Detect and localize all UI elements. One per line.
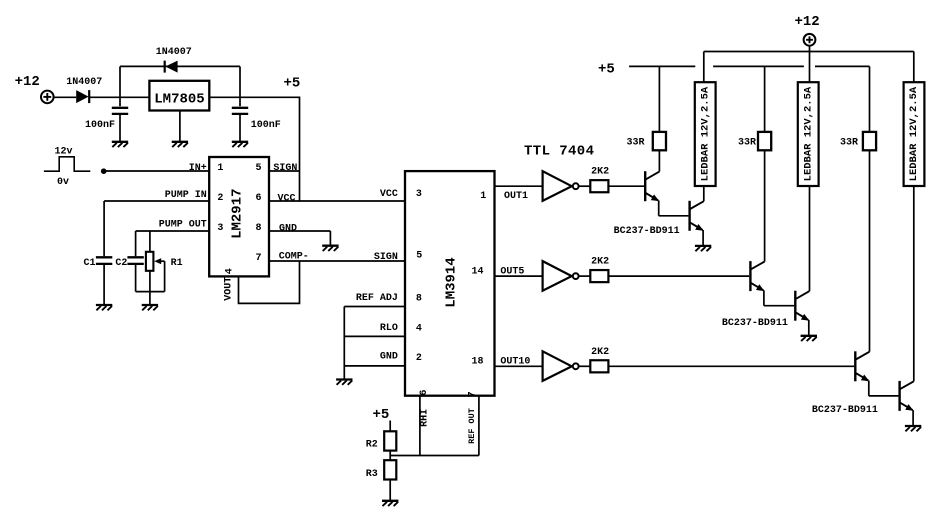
wire 33R to Q3 collector xyxy=(764,150,766,261)
svg-text:4: 4 xyxy=(416,324,422,335)
svg-text:LEDBAR 12V,2.5A: LEDBAR 12V,2.5A xyxy=(802,86,814,181)
wire +12 rail to LEDBAR 1 xyxy=(703,52,705,83)
transistor Q3 BC237 collector xyxy=(751,262,765,270)
svg-text:RHI: RHI xyxy=(420,409,431,427)
transistor Q1 BC237 base bar xyxy=(644,171,646,201)
wire VCC pin6 to LM3914 pin3 xyxy=(269,200,405,202)
diode D1 1N4007 (series input) xyxy=(76,90,89,103)
svg-text:33R: 33R xyxy=(627,138,645,149)
svg-text:4: 4 xyxy=(225,268,236,274)
svg-text:1: 1 xyxy=(480,191,486,202)
svg-text:RLO: RLO xyxy=(380,323,398,334)
svg-text:VCC: VCC xyxy=(380,189,398,200)
inverter U4b triangle xyxy=(543,261,572,291)
resistor R2 box xyxy=(384,431,396,450)
ground under R1 xyxy=(142,305,158,310)
svg-text:R2: R2 xyxy=(366,439,378,450)
svg-text:6: 6 xyxy=(256,193,262,204)
wire +5 rail to 33R 3 xyxy=(869,66,871,131)
resistor 2K2 row 2 box xyxy=(590,270,608,282)
svg-text:GND: GND xyxy=(279,224,297,235)
svg-text:2: 2 xyxy=(416,353,422,364)
resistor 33R 1 box xyxy=(653,132,666,150)
inverter U4c triangle xyxy=(543,351,572,381)
resistor 33R 3 box xyxy=(863,132,876,150)
svg-text:R1: R1 xyxy=(171,258,183,269)
svg-text:LM3914: LM3914 xyxy=(444,257,460,307)
wire source to diode D1 xyxy=(54,96,77,98)
wire C4 to ground xyxy=(239,115,241,141)
wire right leg of bypass loop xyxy=(239,66,241,106)
diode D2 1N4007 (bypass, pointing left) xyxy=(165,61,178,73)
wire C2 to bottom rail xyxy=(135,265,137,292)
transistor Q5 BC237 emitter with arrow xyxy=(856,373,870,396)
ground under LM7805 xyxy=(172,142,188,147)
svg-text:+5: +5 xyxy=(598,62,615,78)
wire GND pin8 stub xyxy=(269,231,330,245)
transistor Q5 BC237 collector xyxy=(856,352,870,360)
svg-text:12v: 12v xyxy=(55,147,73,158)
svg-text:0v: 0v xyxy=(57,177,69,188)
bar-driver U3 LM3914 box xyxy=(405,171,495,396)
wire LM7805 ground pin xyxy=(179,111,181,142)
inverter U4b bubble xyxy=(573,273,579,279)
svg-text:1N4007: 1N4007 xyxy=(66,77,102,88)
svg-text:BC237-BD911: BC237-BD911 xyxy=(614,226,680,237)
wire COMP- pin7 to LM3914 SIGN xyxy=(269,260,405,262)
wire left leg of bypass loop xyxy=(119,66,121,106)
wire LED bar to Q6 collector xyxy=(913,186,915,381)
transistor Q3 BC237 emitter with arrow xyxy=(751,283,765,306)
bypass top wire xyxy=(120,65,240,67)
wire REF ADJ pin8 xyxy=(344,306,405,308)
capacitor C2 plates xyxy=(127,257,143,264)
wire 33R to Q5 collector xyxy=(869,150,871,351)
regulator U2 LM7805 box xyxy=(149,81,209,111)
transistor Q1 BC237 collector xyxy=(646,172,660,180)
resistor 33R 2 box xyxy=(758,132,771,150)
resistor 2K2 row 1 box xyxy=(590,180,608,192)
inverter U4c bubble xyxy=(573,363,579,369)
transistor Q3 BC237 base bar xyxy=(749,261,751,291)
wire REF OUT pin7 down xyxy=(478,396,480,456)
capacitor C4 100nF output plates xyxy=(232,108,248,114)
LED bar 2 box xyxy=(798,82,819,186)
wire C1 to ground xyxy=(103,265,105,305)
op-amp U1 LM2917 box xyxy=(209,157,269,276)
LED bar 1 box xyxy=(695,82,716,186)
transistor Q4 BD911 base bar xyxy=(794,291,796,321)
svg-text:LEDBAR 12V,2.5A: LEDBAR 12V,2.5A xyxy=(699,86,711,181)
transistor Q6 BD911 emitter with arrow xyxy=(900,403,914,426)
wire LED bar to Q4 collector xyxy=(809,186,811,291)
transistor Q6 BD911 collector xyxy=(900,381,914,389)
svg-text:PUMP IN: PUMP IN xyxy=(165,190,207,201)
wire +5 rail segment 2 xyxy=(713,65,804,67)
svg-text:14: 14 xyxy=(472,266,484,277)
potentiometer R1 wiper arrow xyxy=(154,258,164,292)
wire LED bar to Q2 collector xyxy=(703,186,705,201)
transistor Q1 BC237 emitter with arrow xyxy=(646,193,660,216)
svg-text:6: 6 xyxy=(419,390,430,396)
pulse waveform symbol 12v xyxy=(44,157,90,171)
svg-text:TTL 7404: TTL 7404 xyxy=(524,144,594,160)
svg-text:+5: +5 xyxy=(373,407,390,423)
svg-text:5: 5 xyxy=(256,163,262,174)
wire +5 stub to R2 xyxy=(389,421,391,432)
ground under Q6 xyxy=(905,426,921,431)
svg-text:100nF: 100nF xyxy=(251,120,281,131)
wire inverter 3 to resistor 2K2 xyxy=(579,365,591,367)
svg-text:VOUT: VOUT xyxy=(224,277,235,301)
inverter U4a triangle xyxy=(543,171,572,201)
svg-text:R3: R3 xyxy=(366,469,378,480)
wire Q3 emitter to Q4 base xyxy=(764,305,794,307)
wire +12 rail to LEDBAR 3 xyxy=(913,52,915,83)
svg-text:8: 8 xyxy=(416,294,422,305)
wire +5 rail segment 3 xyxy=(815,65,870,67)
wire R1 bottom to ground xyxy=(149,271,151,305)
wire 2K2 row3 to Q5 base xyxy=(608,365,854,367)
svg-text:IN+: IN+ xyxy=(189,163,207,174)
capacitor C1 plates xyxy=(96,257,112,264)
wire +5 rail segment 1 xyxy=(629,65,695,67)
transistor Q4 BD911 collector xyxy=(796,291,810,299)
svg-text:33R: 33R xyxy=(738,138,756,149)
svg-text:100nF: 100nF xyxy=(85,120,115,131)
resistor R3 box xyxy=(384,460,396,479)
potentiometer R1 box xyxy=(146,252,154,271)
transistor Q5 BC237 base bar xyxy=(854,351,856,381)
wire VOUT pin4 loop to COMP- xyxy=(239,261,300,303)
svg-text:VCC: VCC xyxy=(278,194,296,205)
capacitor C3 100nF input plates xyxy=(112,108,128,114)
LED bar 3 box xyxy=(904,82,925,186)
svg-text:18: 18 xyxy=(472,356,484,367)
svg-text:C2: C2 xyxy=(115,258,127,269)
svg-text:2K2: 2K2 xyxy=(591,347,609,358)
wire 2K2 row2 to Q3 base xyxy=(608,275,749,277)
wire +12 terminal stub xyxy=(809,46,811,83)
ground for LM3914 bus xyxy=(336,380,352,385)
svg-text:8: 8 xyxy=(256,223,262,234)
wire RHI pin6 down xyxy=(419,396,421,456)
svg-text:3: 3 xyxy=(416,189,422,200)
wire PUMP OUT pin3 to C2 xyxy=(136,231,210,256)
svg-text:PUMP OUT: PUMP OUT xyxy=(159,220,207,231)
transistor Q2 BD911 emitter with arrow xyxy=(690,223,704,246)
svg-text:REF ADJ: REF ADJ xyxy=(356,293,398,304)
wire 2K2 row1 to Q1 base xyxy=(608,185,644,187)
svg-text:+12: +12 xyxy=(15,74,40,90)
svg-text:BC237-BD911: BC237-BD911 xyxy=(812,405,878,416)
wire 33R to Q1 collector xyxy=(658,150,660,171)
svg-text:2K2: 2K2 xyxy=(591,257,609,268)
wire PUMP IN pin2 to C1 xyxy=(104,201,209,256)
svg-text:3: 3 xyxy=(217,223,223,234)
svg-text:GND: GND xyxy=(380,352,398,363)
wire GND pin2 xyxy=(344,365,405,367)
transistor Q6 BD911 base bar xyxy=(898,381,900,411)
svg-text:7: 7 xyxy=(256,253,262,264)
wire LM7805 output to +5 corner xyxy=(209,96,299,98)
power source terminal (circled plus) xyxy=(41,91,54,104)
ground under C3 xyxy=(112,142,128,147)
ground under Q2 xyxy=(695,246,711,251)
svg-text:2: 2 xyxy=(217,193,223,204)
wire SIGN pin5 to +5 xyxy=(269,170,300,172)
svg-text:LEDBAR 12V,2.5A: LEDBAR 12V,2.5A xyxy=(908,86,920,181)
resistor 2K2 row 3 box xyxy=(590,360,608,372)
wire +5 vertical to LM2917 xyxy=(299,97,301,202)
svg-text:LM7805: LM7805 xyxy=(154,91,204,107)
wire LM3914 output 2 to inverter xyxy=(495,275,543,277)
svg-text:BC237-BD911: BC237-BD911 xyxy=(722,318,788,329)
node input junction dot xyxy=(101,168,107,174)
wire R3 to ground xyxy=(389,480,391,501)
inverter U4a bubble xyxy=(573,183,579,189)
wire C3 to ground xyxy=(119,115,121,141)
svg-text:C1: C1 xyxy=(84,258,96,269)
svg-text:1: 1 xyxy=(217,163,223,174)
svg-text:7: 7 xyxy=(468,391,479,397)
svg-text:+12: +12 xyxy=(795,14,820,30)
wire Q5 emitter to Q6 base xyxy=(869,395,899,397)
svg-text:OUT1: OUT1 xyxy=(504,191,528,202)
svg-text:SIGN: SIGN xyxy=(374,252,398,263)
transistor Q2 BD911 base bar xyxy=(688,201,690,231)
power terminal +12 (circled plus) xyxy=(804,34,816,46)
transistor Q4 BD911 emitter with arrow xyxy=(796,313,810,336)
transistor Q2 BD911 collector xyxy=(690,201,704,209)
wire D1 to LM7805 input xyxy=(89,96,149,98)
svg-text:SIGN: SIGN xyxy=(273,163,297,174)
svg-text:33R: 33R xyxy=(840,138,858,149)
wire RLO pin4 xyxy=(344,335,405,337)
ground under Q4 xyxy=(801,336,817,341)
ground under R3 xyxy=(382,501,398,506)
wire Q1 emitter to Q2 base xyxy=(659,215,689,217)
ground for LM2917 GND xyxy=(322,246,338,251)
svg-text:LM2917: LM2917 xyxy=(230,188,246,238)
ground under C1 xyxy=(96,305,112,310)
svg-text:REF OUT: REF OUT xyxy=(467,408,477,444)
wire R1 top lead xyxy=(149,231,151,252)
wire +5 rail to 33R 2 xyxy=(764,66,766,131)
svg-text:5: 5 xyxy=(416,251,422,262)
svg-text:+5: +5 xyxy=(284,76,301,92)
wire LM3914 output 3 to inverter xyxy=(495,365,543,367)
svg-text:1N4007: 1N4007 xyxy=(156,47,192,58)
wire bottom junction rail xyxy=(390,455,479,457)
wire LM3914 output 1 to inverter xyxy=(495,185,543,187)
wire inverter 2 to resistor 2K2 xyxy=(579,275,591,277)
ground under C4 xyxy=(232,142,248,147)
wire +12 rail xyxy=(704,51,914,53)
bottom rail of C2 R1 group xyxy=(136,291,165,293)
wire R2 to R3 xyxy=(389,451,391,461)
wire inverter 1 to resistor 2K2 xyxy=(579,185,591,187)
wire input to IN+ pin 1 xyxy=(104,170,209,172)
wire +5 rail to 33R 1 xyxy=(658,66,660,131)
wire LM3914 ground bus xyxy=(343,307,345,380)
svg-text:2K2: 2K2 xyxy=(591,167,609,178)
